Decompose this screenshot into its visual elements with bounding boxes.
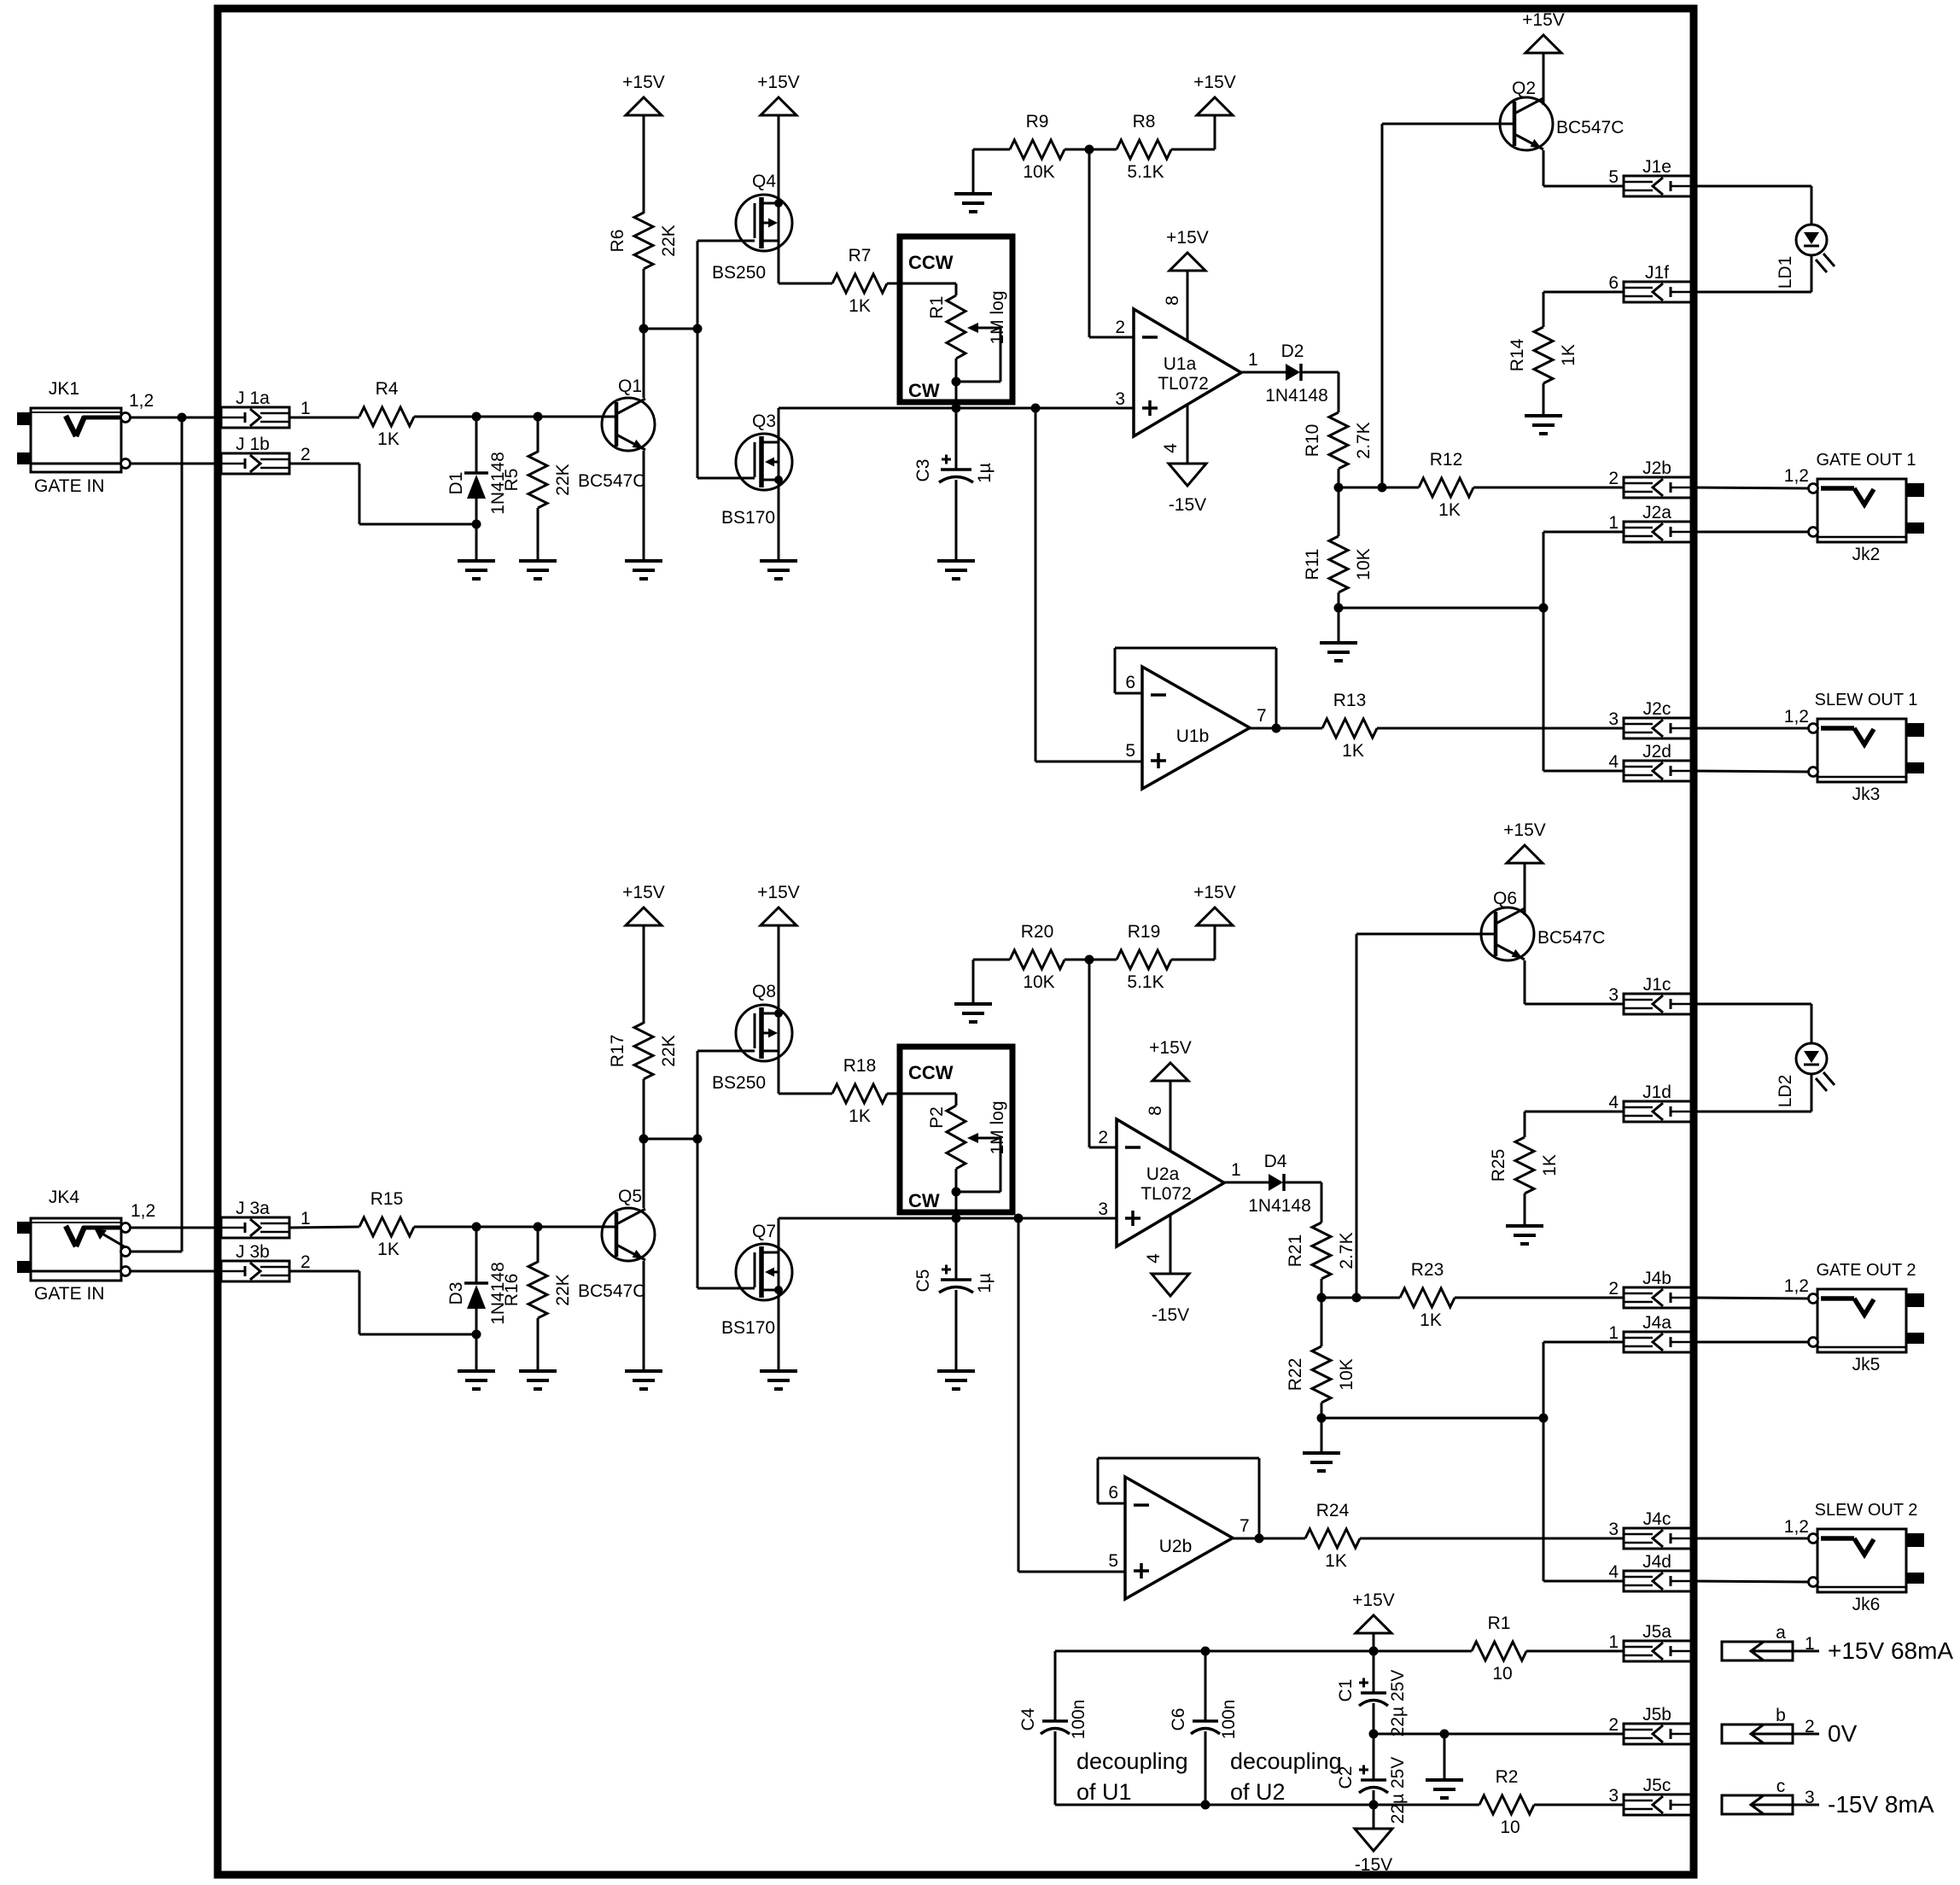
label SLEW OUT bbox=[1815, 691, 1918, 709]
wire bbox=[1205, 1651, 1207, 1721]
wire bbox=[1693, 255, 1811, 292]
resistor R1 10 bbox=[1472, 1614, 1526, 1684]
svg-text:100n: 100n bbox=[1069, 1700, 1088, 1740]
resistor R22 10K bbox=[1286, 1346, 1356, 1403]
LED LD1 bbox=[1776, 225, 1835, 289]
node bbox=[1201, 1647, 1210, 1656]
wire bbox=[1356, 933, 1496, 936]
power +15V bbox=[622, 73, 665, 115]
svg-text:3: 3 bbox=[1608, 709, 1619, 729]
svg-text:J5b: J5b bbox=[1642, 1705, 1671, 1725]
node jack tip junction bbox=[178, 413, 187, 423]
wire bbox=[697, 1287, 755, 1290]
connector J5c pin 3 bbox=[1608, 1776, 1693, 1815]
svg-text:10K: 10K bbox=[1023, 972, 1054, 992]
svg-text:R14: R14 bbox=[1508, 338, 1527, 371]
op-amp U1a TL072 bbox=[1115, 295, 1257, 453]
svg-text:R12: R12 bbox=[1430, 450, 1463, 470]
svg-text:TL072: TL072 bbox=[1140, 1184, 1192, 1204]
svg-text:0V: 0V bbox=[1828, 1720, 1858, 1747]
svg-text:3: 3 bbox=[1608, 985, 1619, 1005]
svg-text:U2b: U2b bbox=[1159, 1537, 1193, 1556]
transistor Q2 BC547C bbox=[1500, 79, 1624, 150]
potentiometer R1 1M log bbox=[900, 236, 1012, 408]
node bbox=[1369, 1730, 1379, 1739]
svg-text:4: 4 bbox=[1161, 443, 1181, 453]
connector J4d pin 4 bbox=[1608, 1552, 1693, 1591]
svg-text:R10: R10 bbox=[1303, 424, 1322, 458]
node bbox=[534, 412, 543, 422]
svg-text:22K: 22K bbox=[553, 1274, 573, 1305]
svg-text:1,2: 1,2 bbox=[1784, 707, 1809, 727]
svg-text:Jk2: Jk2 bbox=[1852, 545, 1881, 564]
transistor Q7 BS170 N-MOSFET bbox=[721, 1222, 792, 1338]
wire bbox=[1693, 771, 1808, 772]
svg-text:2: 2 bbox=[1115, 318, 1125, 337]
svg-text:GATE OUT 1: GATE OUT 1 bbox=[1816, 451, 1916, 470]
connector J1d pin 4 bbox=[1608, 1083, 1693, 1122]
wire bbox=[1382, 123, 1514, 125]
svg-text:R23: R23 bbox=[1411, 1260, 1444, 1280]
output jack Jk2 GATE OUT bbox=[1784, 466, 1924, 564]
wire feedback bbox=[1098, 1458, 1259, 1538]
svg-text:2: 2 bbox=[1608, 1279, 1619, 1298]
wire bbox=[778, 115, 780, 203]
wire bbox=[1693, 1298, 1808, 1298]
svg-text:5: 5 bbox=[1608, 167, 1619, 187]
wire bbox=[1693, 487, 1808, 488]
wire bbox=[1373, 1703, 1375, 1734]
svg-text:1,2: 1,2 bbox=[1784, 1517, 1809, 1537]
connector J2b pin 2 bbox=[1608, 458, 1693, 498]
svg-text:Jk3: Jk3 bbox=[1852, 785, 1881, 804]
node bbox=[639, 324, 649, 334]
svg-text:LD1: LD1 bbox=[1776, 256, 1795, 289]
svg-text:4: 4 bbox=[1608, 752, 1619, 772]
input jack JK1 GATE IN bbox=[17, 379, 154, 496]
wire bbox=[1055, 1804, 1479, 1806]
resistor R19 5.1K bbox=[1117, 922, 1171, 992]
svg-text:J4b: J4b bbox=[1642, 1269, 1671, 1288]
svg-text:1K: 1K bbox=[377, 1240, 400, 1259]
wire bbox=[1693, 186, 1811, 225]
wire bbox=[778, 1290, 780, 1371]
svg-text:+15V: +15V bbox=[622, 883, 665, 902]
svg-text:4: 4 bbox=[1608, 1093, 1619, 1112]
wire bbox=[414, 1226, 616, 1228]
node bbox=[1272, 724, 1281, 733]
svg-text:BC547C: BC547C bbox=[1537, 928, 1605, 948]
resistor R13 1K bbox=[1322, 691, 1377, 761]
svg-text:R25: R25 bbox=[1489, 1149, 1508, 1182]
svg-text:LD2: LD2 bbox=[1776, 1075, 1795, 1108]
node bbox=[1539, 604, 1549, 613]
svg-text:1µ: 1µ bbox=[975, 463, 995, 483]
svg-text:Q1: Q1 bbox=[618, 376, 642, 396]
connector J4a pin 1 bbox=[1608, 1313, 1693, 1352]
svg-text:Jk5: Jk5 bbox=[1852, 1355, 1881, 1374]
connector J4c pin 3 bbox=[1608, 1509, 1693, 1549]
svg-text:of U1: of U1 bbox=[1076, 1779, 1132, 1805]
svg-text:BS250: BS250 bbox=[712, 1073, 766, 1093]
wire bbox=[955, 1290, 958, 1371]
svg-text:1N4148: 1N4148 bbox=[1265, 386, 1328, 406]
svg-text:1,2: 1,2 bbox=[1784, 1276, 1809, 1296]
wire bbox=[643, 925, 645, 1024]
svg-text:1,2: 1,2 bbox=[129, 391, 154, 411]
resistor R17 22K bbox=[608, 1023, 679, 1079]
svg-text:22µ 25V: 22µ 25V bbox=[1388, 1670, 1408, 1737]
node bbox=[1440, 1730, 1450, 1739]
svg-text:7: 7 bbox=[1257, 706, 1267, 726]
svg-text:Q5: Q5 bbox=[618, 1187, 642, 1206]
wire bbox=[956, 1217, 1018, 1220]
svg-text:CW: CW bbox=[908, 380, 940, 401]
svg-text:U2a: U2a bbox=[1146, 1164, 1180, 1184]
ground bbox=[519, 561, 557, 579]
wire bbox=[779, 1051, 832, 1094]
wire bbox=[778, 480, 780, 561]
svg-text:1µ: 1µ bbox=[975, 1273, 995, 1293]
wire bbox=[697, 1050, 755, 1053]
wire pin 8 bbox=[1187, 271, 1189, 341]
power +15V bbox=[1193, 883, 1236, 925]
node bbox=[1085, 955, 1094, 965]
svg-text:+15V: +15V bbox=[622, 73, 665, 92]
diode D4 1N4148 bbox=[1248, 1152, 1311, 1216]
svg-text:CW: CW bbox=[908, 1190, 940, 1211]
node bbox=[1317, 1293, 1327, 1303]
svg-text:+15V: +15V bbox=[1503, 820, 1546, 840]
connector J4b pin 2 bbox=[1608, 1269, 1693, 1308]
wire bbox=[697, 477, 755, 480]
output jack Jk5 GATE OUT bbox=[1784, 1276, 1924, 1374]
wire bbox=[1377, 727, 1624, 730]
transistor Q3 BS170 N-MOSFET bbox=[721, 411, 792, 528]
wire bbox=[1250, 727, 1322, 730]
transistor Q8 BS250 P-MOSFET bbox=[712, 982, 792, 1093]
resistor R2 10 bbox=[1479, 1767, 1534, 1837]
wire bbox=[1373, 1633, 1375, 1651]
wire bbox=[644, 328, 697, 330]
connector J2d pin 4 bbox=[1608, 742, 1693, 781]
svg-text:100n: 100n bbox=[1219, 1700, 1239, 1740]
svg-text:CCW: CCW bbox=[908, 252, 954, 273]
svg-text:J4d: J4d bbox=[1642, 1552, 1671, 1572]
wire bbox=[697, 241, 699, 478]
svg-text:+15V: +15V bbox=[1522, 10, 1565, 30]
svg-text:J2b: J2b bbox=[1642, 458, 1671, 478]
svg-text:10K: 10K bbox=[1337, 1358, 1356, 1390]
ground bbox=[625, 561, 662, 579]
wire bbox=[1233, 1538, 1305, 1540]
wire bbox=[130, 1227, 221, 1229]
wire bbox=[1524, 1193, 1526, 1226]
node bbox=[952, 404, 961, 413]
wire bbox=[1526, 1650, 1624, 1653]
svg-text:GATE OUT 2: GATE OUT 2 bbox=[1816, 1261, 1916, 1280]
svg-text:2.7K: 2.7K bbox=[1337, 1232, 1356, 1269]
svg-text:C1: C1 bbox=[1336, 1679, 1356, 1702]
svg-text:2: 2 bbox=[300, 1252, 311, 1272]
transistor Q6 BC547C bbox=[1481, 889, 1605, 960]
resistor R14 1K bbox=[1508, 327, 1578, 383]
wire bbox=[973, 149, 1010, 194]
svg-text:22K: 22K bbox=[659, 225, 679, 256]
svg-text:R1: R1 bbox=[1488, 1614, 1511, 1633]
svg-text:2: 2 bbox=[1608, 469, 1619, 488]
svg-text:R6: R6 bbox=[608, 230, 627, 253]
node bbox=[693, 324, 703, 334]
label GATE OUT bbox=[1816, 1261, 1916, 1280]
svg-text:10K: 10K bbox=[1354, 548, 1374, 580]
wire bbox=[1321, 1403, 1323, 1453]
svg-text:C6: C6 bbox=[1169, 1708, 1188, 1731]
svg-text:1K: 1K bbox=[849, 296, 871, 316]
svg-text:R1: R1 bbox=[927, 296, 947, 319]
svg-text:1: 1 bbox=[1608, 1323, 1619, 1343]
wire bbox=[130, 1270, 221, 1273]
svg-text:C4: C4 bbox=[1018, 1707, 1038, 1730]
potentiometer P2 1M log bbox=[900, 1047, 1012, 1218]
node bbox=[693, 1135, 703, 1144]
svg-text:1N4148: 1N4148 bbox=[1248, 1196, 1311, 1216]
node bbox=[1352, 1293, 1362, 1303]
node bbox=[639, 1135, 649, 1144]
resistor R6 22K bbox=[608, 213, 679, 269]
diode D2 1N4148 bbox=[1265, 341, 1328, 406]
wire bbox=[956, 407, 1035, 410]
svg-text:b: b bbox=[1776, 1706, 1786, 1725]
svg-text:3: 3 bbox=[1608, 1520, 1619, 1539]
wire bbox=[1360, 1538, 1624, 1540]
svg-text:1: 1 bbox=[300, 1209, 311, 1228]
svg-text:1: 1 bbox=[1608, 513, 1619, 533]
wire bbox=[537, 1318, 540, 1371]
wire bbox=[1525, 1112, 1624, 1137]
wire bbox=[1321, 1297, 1400, 1299]
ground bbox=[1525, 416, 1562, 434]
connector b pin 2 0V bbox=[1722, 1706, 1858, 1747]
resistor R4 1K bbox=[359, 379, 414, 449]
svg-text:2: 2 bbox=[1608, 1715, 1619, 1735]
wire bbox=[1224, 1182, 1269, 1184]
resistor R5 22K bbox=[502, 417, 573, 508]
svg-text:7: 7 bbox=[1240, 1516, 1250, 1536]
wire bbox=[643, 1139, 645, 1208]
power +15V bbox=[1522, 10, 1565, 53]
power -15V bbox=[1169, 464, 1206, 515]
wire pin 4 bbox=[1170, 1215, 1172, 1274]
wire bbox=[1524, 863, 1526, 915]
svg-text:BC547C: BC547C bbox=[1556, 118, 1624, 137]
wire bbox=[1035, 407, 1134, 410]
svg-text:BC547C: BC547C bbox=[578, 471, 645, 491]
node bbox=[1539, 1414, 1549, 1423]
svg-text:8: 8 bbox=[1146, 1106, 1165, 1116]
svg-text:R22: R22 bbox=[1286, 1358, 1305, 1392]
svg-text:J 3b: J 3b bbox=[236, 1242, 270, 1262]
svg-text:5: 5 bbox=[1108, 1551, 1118, 1571]
svg-text:U1a: U1a bbox=[1164, 354, 1197, 374]
svg-text:GATE IN: GATE IN bbox=[34, 476, 104, 496]
transistor Q5 BC547C bbox=[578, 1187, 655, 1301]
svg-text:R19: R19 bbox=[1128, 922, 1161, 942]
wire bbox=[1693, 1004, 1811, 1043]
svg-text:R4: R4 bbox=[376, 379, 399, 399]
svg-text:+15V: +15V bbox=[1193, 73, 1236, 92]
schematic border frame bbox=[218, 9, 1694, 1875]
node bbox=[1334, 483, 1344, 493]
svg-text:J1e: J1e bbox=[1642, 157, 1671, 177]
connector J1e pin 5 bbox=[1608, 157, 1693, 196]
svg-text:1K: 1K bbox=[849, 1106, 871, 1126]
wire bbox=[289, 417, 359, 419]
svg-text:R11: R11 bbox=[1303, 549, 1322, 581]
svg-text:R17: R17 bbox=[608, 1035, 627, 1068]
ground bbox=[954, 1004, 992, 1022]
svg-text:1: 1 bbox=[1231, 1160, 1241, 1180]
wire bbox=[1373, 1805, 1375, 1829]
wire feedback bbox=[1115, 648, 1276, 728]
resistor R20 10K bbox=[1010, 922, 1065, 992]
wire bbox=[1525, 960, 1624, 1004]
wire bbox=[1338, 592, 1340, 643]
resistor R7 1K bbox=[832, 246, 887, 316]
svg-text:SLEW OUT 2: SLEW OUT 2 bbox=[1815, 1501, 1918, 1520]
capacitor C2 22u 25V bbox=[1336, 1734, 1408, 1824]
wire bbox=[644, 1138, 697, 1141]
svg-text:1: 1 bbox=[1805, 1634, 1815, 1654]
svg-text:5.1K: 5.1K bbox=[1127, 972, 1164, 992]
wire bbox=[475, 524, 478, 561]
svg-text:1K: 1K bbox=[1438, 500, 1461, 520]
output jack Jk6 SLEW OUT bbox=[1784, 1517, 1924, 1614]
svg-text:1,2: 1,2 bbox=[1784, 466, 1809, 486]
svg-text:4: 4 bbox=[1144, 1253, 1164, 1263]
svg-text:3: 3 bbox=[1608, 1786, 1619, 1806]
wire bbox=[697, 240, 755, 242]
wire bbox=[1543, 1342, 1624, 1581]
ground bbox=[625, 1371, 662, 1389]
svg-text:4: 4 bbox=[1608, 1562, 1619, 1582]
wire bbox=[289, 1227, 359, 1228]
svg-text:-15V: -15V bbox=[1152, 1305, 1189, 1325]
svg-text:6: 6 bbox=[1108, 1483, 1118, 1503]
svg-text:+15V 68mA: +15V 68mA bbox=[1828, 1637, 1953, 1664]
capacitor C6 100n bbox=[1169, 1700, 1239, 1740]
svg-text:Q7: Q7 bbox=[752, 1222, 776, 1241]
svg-text:5.1K: 5.1K bbox=[1127, 162, 1164, 182]
wire bbox=[1035, 408, 1142, 762]
svg-text:J1f: J1f bbox=[1645, 263, 1669, 283]
connector J2c pin 3 bbox=[1608, 699, 1693, 738]
wire bbox=[1693, 531, 1808, 534]
ground bbox=[1303, 1453, 1340, 1471]
wire bbox=[130, 417, 221, 419]
wire bbox=[1693, 1581, 1808, 1582]
LED LD2 bbox=[1776, 1043, 1835, 1107]
wire bbox=[1543, 383, 1545, 416]
power +15V bbox=[1166, 228, 1209, 271]
svg-text:R16: R16 bbox=[502, 1274, 522, 1307]
ground bbox=[954, 194, 992, 212]
connector J 1b pin 2 bbox=[221, 435, 311, 474]
wire bbox=[1241, 371, 1286, 374]
wire bbox=[1534, 1804, 1624, 1806]
node bbox=[1369, 1800, 1379, 1810]
wire bbox=[643, 1261, 645, 1371]
wire bbox=[1693, 1341, 1808, 1344]
svg-text:1: 1 bbox=[300, 399, 311, 418]
svg-text:JK1: JK1 bbox=[49, 379, 79, 399]
resistor R10 2.7K bbox=[1303, 412, 1374, 469]
svg-text:1K: 1K bbox=[377, 429, 400, 449]
svg-text:J 1b: J 1b bbox=[236, 435, 270, 454]
wire bbox=[697, 1051, 699, 1288]
svg-text:BS170: BS170 bbox=[721, 1318, 775, 1338]
svg-text:J4a: J4a bbox=[1642, 1313, 1671, 1333]
svg-text:a: a bbox=[1776, 1623, 1786, 1643]
svg-text:5: 5 bbox=[1125, 741, 1135, 761]
wire pin 4 bbox=[1187, 405, 1189, 464]
wire bbox=[1055, 1650, 1472, 1653]
svg-text:6: 6 bbox=[1608, 273, 1619, 293]
svg-text:D1: D1 bbox=[446, 472, 466, 495]
wire bbox=[1543, 532, 1624, 771]
svg-text:J4c: J4c bbox=[1643, 1509, 1671, 1529]
wire bbox=[1473, 487, 1624, 489]
svg-text:J 3a: J 3a bbox=[236, 1199, 270, 1218]
wire bbox=[1455, 1297, 1624, 1299]
wire bbox=[1543, 53, 1545, 105]
svg-text:C3: C3 bbox=[913, 459, 933, 482]
svg-text:J2d: J2d bbox=[1642, 742, 1671, 762]
svg-text:2: 2 bbox=[1805, 1717, 1815, 1736]
resistor R11 10K bbox=[1303, 536, 1374, 592]
svg-text:10: 10 bbox=[1500, 1818, 1520, 1837]
resistor R9 10K bbox=[1010, 112, 1065, 182]
svg-text:Q8: Q8 bbox=[752, 982, 776, 1001]
svg-text:6: 6 bbox=[1125, 673, 1135, 692]
node bbox=[1014, 1214, 1024, 1223]
wire bbox=[643, 329, 645, 398]
svg-text:R5: R5 bbox=[502, 469, 522, 492]
svg-text:GATE IN: GATE IN bbox=[34, 1284, 104, 1304]
wire bbox=[289, 1271, 476, 1334]
svg-text:-15V 8mA: -15V 8mA bbox=[1828, 1791, 1934, 1818]
capacitor C1 22u 25V bbox=[1336, 1651, 1408, 1736]
power +15V bbox=[757, 883, 800, 925]
wire bbox=[955, 480, 958, 561]
wire bbox=[1301, 372, 1339, 412]
resistor R23 1K bbox=[1400, 1260, 1455, 1330]
wire bbox=[1321, 1279, 1323, 1346]
svg-text:+15V: +15V bbox=[1149, 1038, 1192, 1058]
connector J1c pin 3 bbox=[1608, 975, 1693, 1014]
wire bbox=[1693, 1538, 1808, 1540]
svg-text:3: 3 bbox=[1098, 1199, 1108, 1219]
wire bbox=[537, 508, 540, 561]
svg-text:TL072: TL072 bbox=[1158, 374, 1209, 394]
capacitor C3 1u bbox=[913, 408, 995, 483]
wire bbox=[475, 1334, 478, 1371]
op-amp U2b bbox=[1108, 1477, 1249, 1599]
ground bbox=[519, 1371, 557, 1389]
svg-text:R9: R9 bbox=[1026, 112, 1049, 131]
svg-text:1M log: 1M log bbox=[988, 1100, 1007, 1154]
label decoupling of U1 bbox=[1076, 1748, 1188, 1805]
